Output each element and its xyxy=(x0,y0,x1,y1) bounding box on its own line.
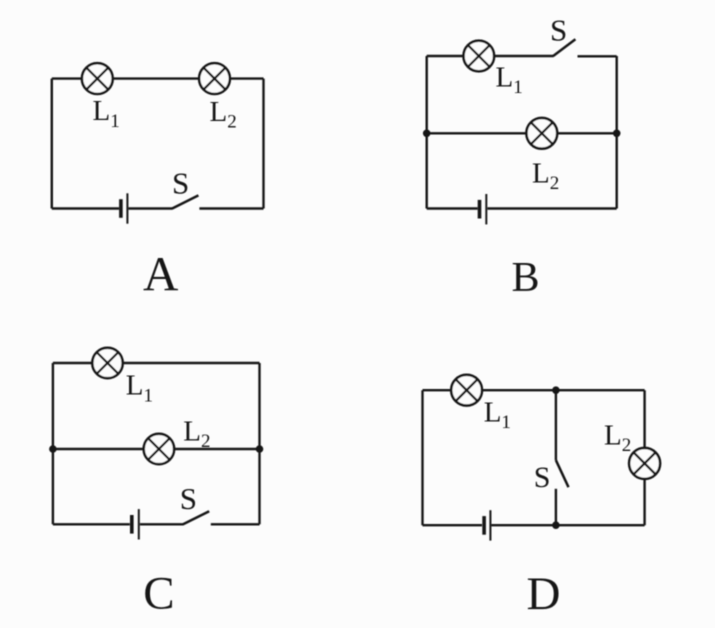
wire A bottom left (corner to battery) xyxy=(52,207,119,209)
wire C bottom left (corner to battery) xyxy=(53,523,130,525)
battery (circuit A) xyxy=(121,193,128,223)
wire A bottom right (switch to corner) xyxy=(199,207,263,209)
lamp L1 (circuit B) xyxy=(464,41,495,72)
wire A bottom middle (battery to switch) xyxy=(128,207,172,209)
wire D top side xyxy=(423,389,645,391)
wire D middle branch lower (switch to junction) xyxy=(555,489,557,525)
lamp L2 (circuit C) xyxy=(144,434,174,464)
lamp L2 (circuit B) xyxy=(526,118,557,149)
battery (circuit C) xyxy=(132,509,139,539)
switch S blade (circuit B) xyxy=(553,39,575,56)
wire D right side xyxy=(643,390,645,525)
wire A right side xyxy=(262,79,264,209)
wire D middle branch upper (junction to switch) xyxy=(555,390,557,460)
node right junction (circuit C) xyxy=(256,445,264,453)
lamp L2 (circuit D) xyxy=(629,448,660,479)
wire A left side xyxy=(51,79,53,209)
svg-text:S: S xyxy=(172,166,189,201)
node left junction (circuit C) xyxy=(49,445,57,453)
wire B middle branch xyxy=(427,132,617,134)
wire D bottom right (battery to corner) xyxy=(491,524,644,526)
wire B bottom right (battery to corner) xyxy=(487,207,616,209)
wire C right side xyxy=(258,363,260,524)
wire C bottom middle (battery to switch) xyxy=(140,523,184,525)
svg-text:S: S xyxy=(550,12,567,47)
wire B bottom left (corner to battery) xyxy=(427,207,478,209)
wire C top side xyxy=(53,362,260,364)
svg-text:A: A xyxy=(143,246,179,301)
wire B top (corner to switch) xyxy=(427,55,554,57)
wire B right side xyxy=(616,56,618,209)
wire B left side xyxy=(426,56,428,209)
svg-text:S: S xyxy=(180,481,197,516)
battery (circuit D) xyxy=(484,510,490,540)
switch S blade (circuit C) xyxy=(183,511,209,524)
switch S blade (circuit A) xyxy=(172,195,198,208)
lamp L1 (circuit A) xyxy=(82,63,113,94)
svg-text:D: D xyxy=(527,568,561,620)
node bottom junction (circuit D) xyxy=(552,521,560,529)
battery (circuit B) xyxy=(480,194,487,224)
wire A top side xyxy=(52,77,264,79)
svg-text:C: C xyxy=(143,568,174,620)
svg-text:S: S xyxy=(534,461,551,494)
wire D left side xyxy=(421,390,423,525)
wire D bottom left (corner to battery) xyxy=(423,524,483,526)
wire C bottom right (switch to corner) xyxy=(211,523,260,525)
node top junction (circuit D) xyxy=(552,386,560,394)
wire C middle branch xyxy=(53,448,260,450)
node left junction (circuit B) xyxy=(423,130,431,138)
switch S blade (circuit D) xyxy=(556,460,569,487)
wire C left side xyxy=(52,363,54,524)
wire B top right (switch to corner) xyxy=(578,55,617,57)
lamp L1 (circuit D) xyxy=(451,375,482,406)
svg-text:B: B xyxy=(512,255,540,301)
lamp L2 (circuit A) xyxy=(199,63,230,94)
node right junction (circuit B) xyxy=(613,130,621,138)
lamp L1 (circuit C) xyxy=(92,348,122,378)
